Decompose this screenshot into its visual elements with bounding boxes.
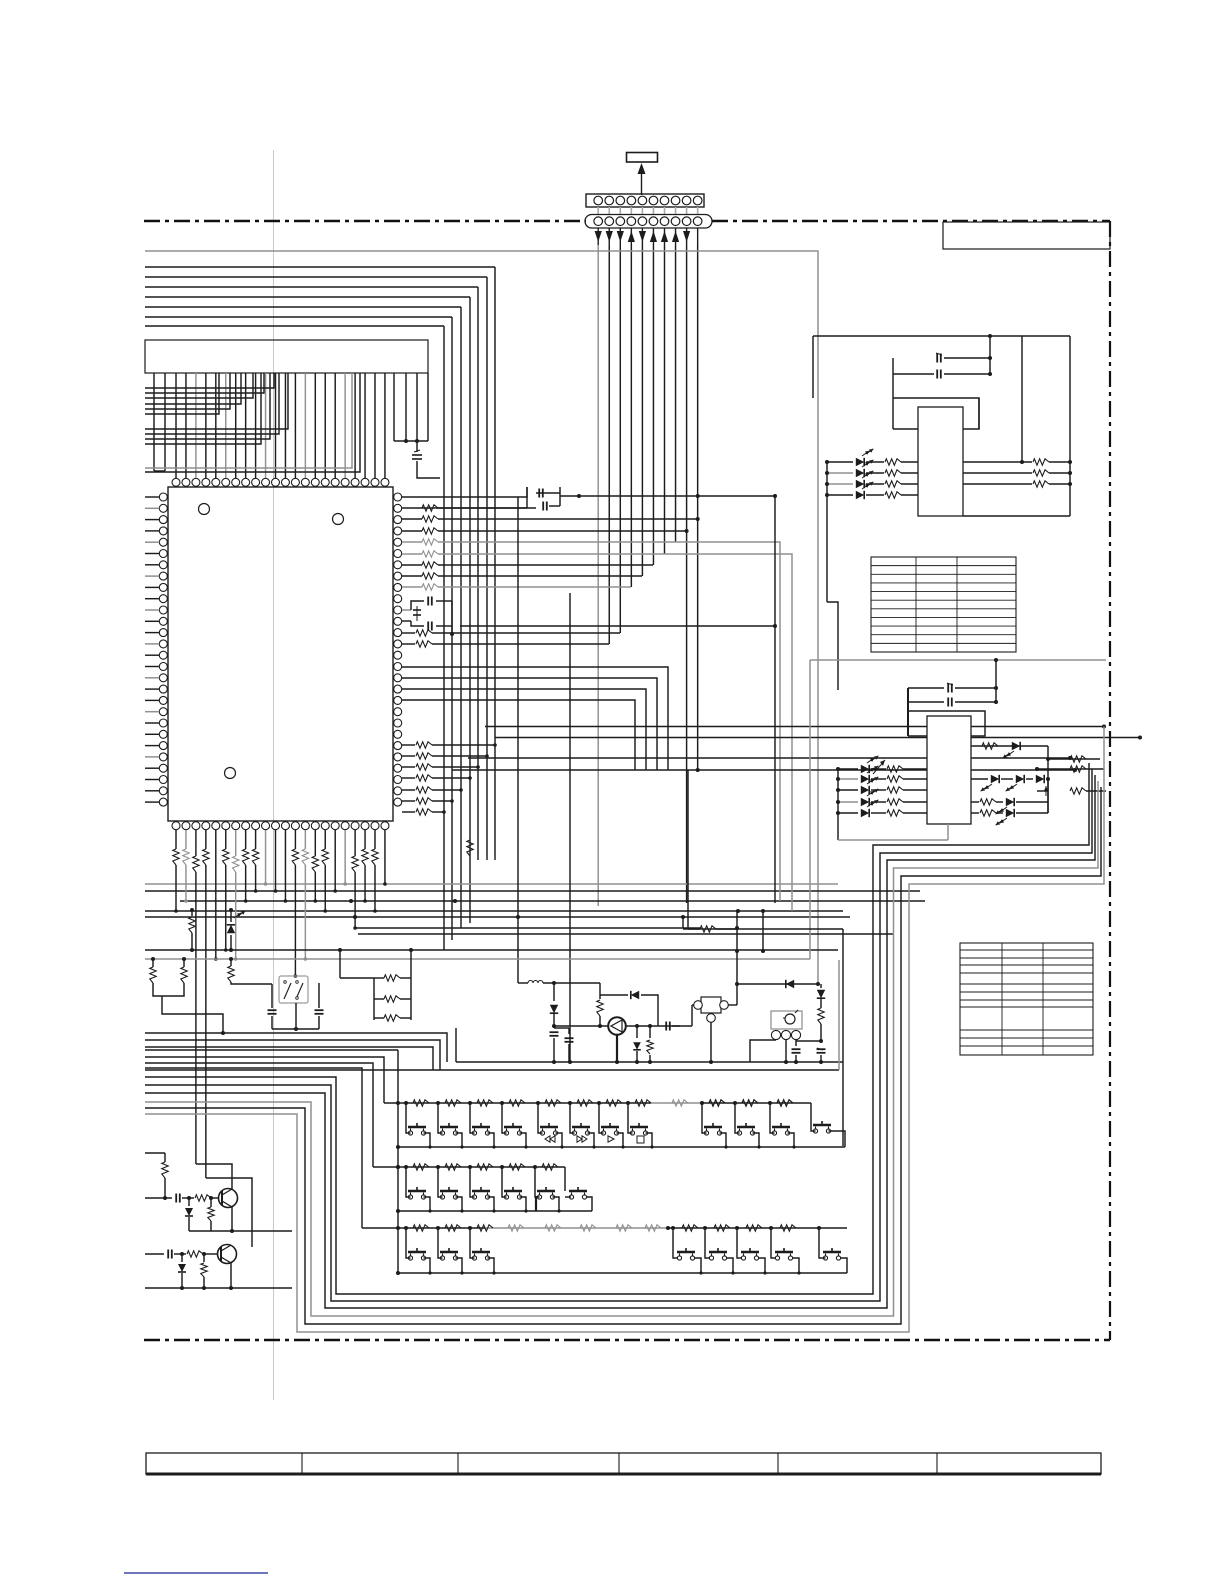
capacitor C51 bbox=[318, 983, 320, 1008]
wire to connector bus bbox=[438, 564, 653, 566]
wire bbox=[432, 811, 444, 813]
key switch bbox=[677, 1251, 695, 1254]
resistor RB20 bbox=[362, 849, 368, 865]
resistor R43 bbox=[871, 801, 886, 803]
resistor R23 bbox=[866, 494, 884, 496]
row1 right group rail resistors bbox=[672, 1100, 688, 1106]
IC U1 bottom pin 2 bbox=[182, 822, 190, 830]
wire long horizontal D bbox=[145, 890, 920, 892]
wire q1 emitter bbox=[231, 1207, 233, 1231]
signal arrow 6 bbox=[652, 229, 654, 246]
IC U1 left pin 5 bbox=[159, 538, 167, 546]
IC U1 top pin 16 bbox=[321, 478, 329, 486]
diode D42 bbox=[838, 789, 858, 791]
resistor R42 bbox=[871, 789, 886, 791]
wire IC bottom pin 19 bbox=[354, 830, 356, 856]
connector CN1 pin 2 bbox=[605, 196, 614, 205]
capacitor C52 bbox=[550, 1031, 559, 1033]
label box on top border bbox=[943, 222, 1110, 249]
wire bus to IC top pin bbox=[275, 373, 277, 478]
wire under bus rect bbox=[153, 373, 155, 471]
wire bus to IC top pin bbox=[314, 373, 316, 478]
wire bbox=[432, 800, 452, 802]
wire key left bbox=[470, 1103, 475, 1133]
wire IR supply bbox=[737, 1004, 771, 1006]
wire key right bbox=[793, 1258, 800, 1273]
signal arrow 3 bbox=[619, 229, 621, 246]
IC U1 bottom pin 7 bbox=[232, 822, 240, 830]
IC U1 top pin 2 bbox=[182, 478, 190, 486]
IC U1 bottom pin 9 bbox=[252, 822, 260, 830]
resistor R21 bbox=[866, 472, 884, 474]
crystal X1 bbox=[279, 976, 308, 1003]
IR receiver module U4 bbox=[771, 1011, 802, 1029]
IC U1 bottom pin 5 bbox=[212, 822, 220, 830]
wire grey long 660 bbox=[810, 659, 1106, 661]
IC U1 left pin 25 bbox=[159, 764, 167, 772]
wire left bundle 3 bbox=[145, 1047, 433, 1070]
wire long horizontal 725 bbox=[485, 726, 1104, 728]
wire U2 out 1 bbox=[963, 472, 1032, 474]
wire key left bbox=[599, 1103, 604, 1133]
resistor RB14 bbox=[302, 849, 308, 865]
wire key left bbox=[535, 1167, 540, 1197]
IC U1 top pin 10 bbox=[262, 478, 270, 486]
wire key left bbox=[673, 1228, 678, 1258]
q1 ground rail bbox=[189, 1230, 292, 1232]
wire U3 loop bbox=[907, 688, 909, 736]
IC U1 right pin 4 bbox=[394, 527, 402, 535]
wire key right bbox=[456, 1133, 463, 1147]
wire U2 loop bbox=[892, 358, 894, 429]
wire section border bbox=[455, 1028, 457, 1062]
wire bus to IC top pin bbox=[294, 373, 296, 478]
resistor RB15 bbox=[312, 856, 318, 872]
wire left edge to IC pin bbox=[145, 609, 159, 611]
wire bus to IC top pin bbox=[324, 373, 326, 478]
q2 ground rail bbox=[145, 1287, 292, 1289]
resistor bbox=[402, 811, 415, 813]
wire IC bottom pin 4 bbox=[205, 830, 207, 849]
wire left edge to IC pin bbox=[145, 722, 159, 724]
wire rail 950 bbox=[145, 949, 838, 951]
wire bus to IC top pin bbox=[185, 373, 187, 478]
wire left edge to IC pin bbox=[145, 541, 159, 543]
wire IC bottom pin 9 bbox=[255, 830, 257, 849]
resistor R22 bbox=[866, 483, 884, 485]
wire key left bbox=[470, 1167, 475, 1197]
key switch bbox=[504, 1126, 522, 1129]
resistor key bbox=[477, 1100, 493, 1106]
wire top-left bundle bbox=[145, 296, 470, 298]
IC U1 left pin 17 bbox=[159, 674, 167, 682]
IC U1 right pin 17 bbox=[394, 674, 402, 682]
board connector pin 6 bbox=[649, 217, 658, 226]
wire bbox=[432, 755, 487, 757]
resistor trio R54-R56 bbox=[373, 978, 375, 1020]
IC U1 right pin 16 bbox=[394, 663, 402, 671]
wire q cluster right bbox=[240, 1160, 252, 1191]
wire to key rail 2 bbox=[145, 1063, 373, 1167]
IC U1 left pin 21 bbox=[159, 719, 167, 727]
IC U1 right pin 28 bbox=[394, 798, 402, 806]
wire IC bottom pin 18 bbox=[344, 830, 346, 884]
wire long horizontal E bbox=[145, 883, 838, 885]
key switch bbox=[772, 1126, 790, 1129]
wire key right bbox=[488, 1258, 495, 1273]
table block 1 bbox=[871, 557, 1016, 652]
IC U1 right pin 13 bbox=[394, 629, 402, 637]
IC U1 top pin 5 bbox=[212, 478, 220, 486]
resistor key bbox=[445, 1100, 461, 1106]
footer blue rule bbox=[124, 1572, 268, 1574]
wire left edge to IC pin bbox=[145, 553, 159, 555]
wire key right bbox=[424, 1258, 431, 1273]
wire left edge to IC pin bbox=[145, 575, 159, 577]
wire bus to IC top pin bbox=[195, 373, 197, 478]
board connector pin 7 bbox=[660, 217, 669, 226]
wire vertical 763 bbox=[762, 911, 764, 951]
wire left edge to IC pin bbox=[145, 756, 159, 758]
resistor key bbox=[477, 1164, 493, 1170]
IC U1 bottom pin 14 bbox=[301, 822, 309, 830]
IC U1 top pin 11 bbox=[272, 478, 280, 486]
wire IC bottom pin 10 bbox=[265, 830, 267, 884]
wire left edge to bus (grey) bbox=[145, 373, 352, 468]
section box bottom line bbox=[145, 1069, 839, 1071]
key switch last bbox=[823, 1251, 841, 1254]
IC U1 right pin 6 bbox=[394, 550, 402, 558]
wire key right bbox=[759, 1258, 766, 1273]
diode D51 bbox=[553, 983, 555, 1001]
board connector pin 8 bbox=[671, 217, 680, 226]
wire bus to IC top pin bbox=[374, 373, 376, 478]
wire staircase vertical bbox=[460, 307, 462, 928]
IC U1 top pin 13 bbox=[291, 478, 299, 486]
diode D55 bbox=[820, 984, 822, 988]
IC U1 bottom pin 15 bbox=[311, 822, 319, 830]
wire bus to IC top pin bbox=[354, 373, 356, 478]
key switch bbox=[440, 1190, 458, 1193]
wire IC pin row with caps bbox=[402, 487, 527, 497]
IC U1 top pin 12 bbox=[281, 478, 289, 486]
wire routed net bbox=[145, 763, 1089, 1294]
resistor R30 bbox=[982, 743, 998, 749]
IC U1 top pin 14 bbox=[301, 478, 309, 486]
wire IC bottom pin 12 bbox=[284, 830, 286, 901]
wire left edge to IC pin bbox=[145, 530, 159, 532]
capacitor C31 bbox=[908, 701, 944, 703]
IC U1 top pin 9 bbox=[252, 478, 260, 486]
wire key left bbox=[502, 1103, 507, 1133]
resistor R71 bbox=[195, 1195, 211, 1201]
zener diode D50 bbox=[230, 910, 232, 922]
resistor R72 bbox=[210, 1203, 212, 1207]
resistor bbox=[402, 541, 422, 543]
ribbon bus rectangle bbox=[145, 340, 428, 373]
wire routed net bbox=[145, 727, 1104, 1333]
wire bus to IC top pin bbox=[245, 373, 247, 478]
key switch bbox=[472, 1190, 490, 1193]
resistor R70 bbox=[162, 1162, 168, 1178]
wire xtal ground rail bbox=[272, 1028, 319, 1030]
capacitor C71 bbox=[167, 1250, 169, 1259]
wire opamp output bbox=[626, 1025, 680, 1027]
wire resonator bbox=[692, 1004, 694, 1006]
wire to connector bus bbox=[438, 530, 686, 532]
diode D33 bbox=[991, 775, 999, 783]
wire long vertical 570 bbox=[569, 593, 571, 1062]
wire bbox=[816, 982, 820, 986]
wire staircase vertical bbox=[443, 326, 445, 950]
IC U1 right pin 12 bbox=[394, 617, 402, 625]
wire left edge to IC pin bbox=[145, 666, 159, 668]
wire IC right pin staircase bbox=[402, 678, 657, 770]
IC U1 right pin 21 bbox=[394, 719, 402, 727]
wire net 496 long bbox=[560, 495, 775, 497]
wire bus to IC top pin bbox=[334, 373, 336, 478]
wire key right bbox=[488, 1197, 495, 1211]
wire left edge to IC pin bbox=[145, 711, 159, 713]
wire bbox=[432, 777, 470, 779]
op amp A1 bbox=[608, 1017, 626, 1035]
key switch bbox=[737, 1126, 755, 1129]
page fold line bbox=[273, 150, 275, 1400]
IC U1 left pin 12 bbox=[159, 617, 167, 625]
wire key left bbox=[771, 1228, 776, 1258]
capacitor C21 bbox=[893, 373, 934, 375]
IC U1 bottom pin 20 bbox=[361, 822, 369, 830]
wire bus to IC top pin bbox=[384, 373, 386, 478]
transistor Q1 bbox=[219, 1189, 238, 1208]
diode D52 bbox=[600, 994, 628, 996]
board connector pin 2 bbox=[605, 217, 614, 226]
wire key left bbox=[702, 1103, 707, 1133]
resistor bbox=[402, 755, 415, 757]
wire IC bottom pin 2 bbox=[185, 830, 187, 849]
IC U1 top pin 20 bbox=[361, 478, 369, 486]
resistor R252 bbox=[1033, 481, 1049, 487]
resistor R40 bbox=[871, 768, 886, 770]
wire long horizontal 626 bbox=[460, 625, 775, 627]
wire to connector bus bbox=[438, 541, 675, 543]
wire row2 tick bbox=[535, 1196, 537, 1211]
connector CN1 header rect bbox=[627, 153, 658, 163]
resistor R53 bbox=[230, 959, 232, 966]
icon fast-forward bbox=[577, 1136, 587, 1142]
wire grey rail 959 bbox=[145, 958, 810, 960]
resistor key bbox=[577, 1100, 593, 1106]
IC U1 bottom pin 19 bbox=[351, 822, 359, 830]
wire key right bbox=[753, 1133, 760, 1147]
resistor RB13 bbox=[292, 849, 298, 865]
wire to connector bus bbox=[438, 518, 697, 520]
signal arrow 2 bbox=[608, 229, 610, 246]
wire IC right pin staircase bbox=[402, 700, 635, 770]
wire IC bottom pin 6 bbox=[225, 830, 227, 849]
resistor key bbox=[445, 1225, 461, 1231]
resistor key bbox=[413, 1225, 429, 1231]
IC U1 left pin 15 bbox=[159, 651, 167, 659]
wire top-left bundle bbox=[145, 316, 452, 318]
diode D20 bbox=[827, 461, 853, 463]
wire under bus rect bbox=[164, 373, 166, 471]
wire staircase vertical bbox=[451, 317, 453, 940]
resistor RB2 bbox=[183, 849, 189, 865]
wire bus to IC top pin bbox=[235, 373, 237, 478]
wire top-left bundle bbox=[145, 306, 461, 308]
IC U1 left pin 10 bbox=[159, 595, 167, 603]
resistor bbox=[402, 766, 415, 768]
wire top-left bundle bbox=[145, 276, 487, 278]
IC U1 right pin 8 bbox=[394, 572, 402, 580]
resistor R58 bbox=[649, 1026, 651, 1038]
IC U1 right pin 5 bbox=[394, 538, 402, 546]
resistor RB1 bbox=[173, 849, 179, 865]
IC U1 left pin 27 bbox=[159, 787, 167, 795]
capacitor C53 bbox=[568, 1028, 570, 1034]
resistor bbox=[402, 575, 422, 577]
resistor R44 bbox=[871, 812, 886, 814]
wire bbox=[1021, 336, 1023, 462]
wire IC bottom pin 21 bbox=[374, 830, 376, 849]
IC U1 bottom pin 6 bbox=[222, 822, 230, 830]
signal arrow 1 bbox=[597, 229, 599, 246]
IC U1 right pin 1 bbox=[394, 493, 402, 501]
wire to connector bus bbox=[438, 553, 664, 555]
wire left edge to bus bbox=[145, 373, 261, 444]
key switch bbox=[572, 1126, 590, 1129]
wire U2 left bus bbox=[826, 462, 828, 602]
key switch bbox=[504, 1190, 522, 1193]
diode D44 bbox=[838, 812, 858, 814]
IC U1 bottom pin 13 bbox=[291, 822, 299, 830]
wire left edge to bus bbox=[145, 373, 219, 414]
inductor L1 bbox=[518, 982, 528, 984]
connector CN1 pin 6 bbox=[649, 196, 658, 205]
wire key left bbox=[406, 1167, 411, 1197]
icon play bbox=[608, 1136, 614, 1142]
wire bus to IC top pin bbox=[344, 373, 346, 478]
wire key left bbox=[538, 1103, 543, 1133]
resistor R250 bbox=[1033, 459, 1049, 465]
key switch bbox=[472, 1251, 490, 1254]
IC U1 bottom pin 21 bbox=[371, 822, 379, 830]
wire left edge to IC pin bbox=[145, 677, 159, 679]
resistor R251 bbox=[1033, 470, 1049, 476]
resistor R52 bbox=[191, 910, 193, 916]
wire right col bbox=[826, 1040, 828, 1062]
key switch bbox=[408, 1190, 426, 1193]
key switch raised bbox=[813, 1124, 831, 1127]
resistor R51 bbox=[183, 959, 185, 967]
wire long horizontal 770 bbox=[452, 769, 1075, 771]
wire bus to IC top pin bbox=[255, 373, 257, 478]
IC U1 left pin 1 bbox=[159, 493, 167, 501]
wire U2 out 2 bbox=[963, 483, 1032, 485]
wire bus to IC top pin bbox=[205, 373, 207, 478]
frame top border (dash-dot) bbox=[144, 220, 586, 222]
wire key right bbox=[588, 1133, 595, 1147]
wire key left bbox=[438, 1167, 443, 1197]
wire key right bbox=[617, 1133, 624, 1147]
resistor bbox=[402, 530, 422, 532]
wire out right 2 bbox=[1037, 768, 1104, 770]
board connector (stadium) bbox=[585, 215, 712, 229]
transistor Q2 bbox=[218, 1245, 237, 1264]
resonator X2 bbox=[451, 601, 453, 634]
diode D35 bbox=[1036, 775, 1044, 783]
wire U3 bottom grey bbox=[838, 839, 948, 841]
wire left edge to bus bbox=[145, 373, 274, 388]
resistor R33 bbox=[1070, 788, 1086, 794]
wire long vertical 518 bbox=[517, 497, 519, 983]
wire IC bottom pin 11 bbox=[275, 830, 277, 891]
key switch bbox=[540, 1126, 558, 1129]
key row2 rail bbox=[373, 1166, 565, 1168]
IC U1 right pin 2 bbox=[394, 504, 402, 512]
IC U1 right pin 24 bbox=[394, 753, 402, 761]
IC U1 top pin 8 bbox=[242, 478, 250, 486]
IC U1 top pin 3 bbox=[192, 478, 200, 486]
IC U1 top pin 15 bbox=[311, 478, 319, 486]
resistor RB3 bbox=[193, 856, 199, 872]
wire bus to IC top pin bbox=[284, 373, 286, 478]
wire to key rail 1 bbox=[145, 1057, 384, 1103]
wire staircase vertical bbox=[486, 277, 488, 860]
IC U1 top pin 22 bbox=[381, 478, 389, 486]
wire left edge to bus bbox=[145, 373, 279, 434]
wire key right bbox=[553, 1197, 560, 1211]
wire IC bottom pin 1 bbox=[175, 830, 177, 849]
wire key right bbox=[520, 1133, 527, 1147]
resistor key bbox=[509, 1100, 525, 1106]
wire key left bbox=[737, 1228, 742, 1258]
IC U1 left pin 18 bbox=[159, 685, 167, 693]
key row3 rail bbox=[362, 1227, 485, 1229]
key switch bbox=[440, 1251, 458, 1254]
IC U1 left pin 16 bbox=[159, 663, 167, 671]
IC U1 left pin 13 bbox=[159, 629, 167, 637]
resistor bbox=[402, 777, 415, 779]
IC U1 left pin 23 bbox=[159, 742, 167, 750]
resistor key bbox=[542, 1164, 558, 1170]
IC U1 left pin 24 bbox=[159, 753, 167, 761]
wire bbox=[432, 744, 495, 746]
wire long horizontal B bbox=[145, 916, 850, 918]
wire grey branch 554 bbox=[664, 554, 792, 911]
section bottom rail bbox=[456, 1061, 843, 1063]
IC U1 bottom pin 1 bbox=[172, 822, 180, 830]
capacitor C11 bbox=[402, 609, 411, 611]
wire left edge to IC pin bbox=[145, 745, 159, 747]
resistor bbox=[402, 744, 415, 746]
wire bbox=[736, 911, 738, 1005]
key switch bbox=[472, 1126, 490, 1129]
IC U1 bottom pin 3 bbox=[192, 822, 200, 830]
wire top loop U2 bbox=[813, 335, 1070, 337]
resistor key bbox=[545, 1100, 561, 1106]
IC U1 left pin 7 bbox=[159, 561, 167, 569]
wire left edge to IC pin bbox=[145, 507, 159, 509]
signal arrow 5 bbox=[641, 229, 643, 246]
connector CN1 pin 5 bbox=[638, 196, 647, 205]
frame right border (dash-dot) bbox=[1109, 221, 1111, 1340]
wire grey branch 542 bbox=[675, 542, 780, 901]
wire bus to IC top pin bbox=[215, 373, 217, 478]
wire routed net bbox=[145, 769, 1092, 1301]
opamp ground stem bbox=[616, 1035, 618, 1062]
